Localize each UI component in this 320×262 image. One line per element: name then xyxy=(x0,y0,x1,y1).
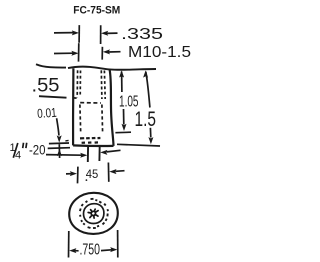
1/4-20 leader wire xyxy=(46,154,82,157)
svg-text:.750: .750 xyxy=(80,241,101,258)
svg-text:M10-1.5: M10-1.5 xyxy=(128,44,191,61)
thread bottom dashes row 2 xyxy=(82,141,98,144)
gap surface line upper xyxy=(49,142,69,145)
dimension .45 left leader wire xyxy=(66,173,71,175)
standoff body right edge xyxy=(110,70,114,146)
dimension 1.05 lower arrow segment xyxy=(123,109,125,125)
row A right arrowhead xyxy=(100,150,107,155)
svg-text:45: 45 xyxy=(86,167,99,181)
dimension .45 right arrowhead xyxy=(109,169,116,174)
.750 left arrow tail wire xyxy=(75,250,79,252)
top face reference line left segment xyxy=(36,64,66,67)
0.01 leader lower stem xyxy=(58,144,60,158)
dimension .335 left arrowhead xyxy=(72,30,79,35)
thread bottom dashes row 1 xyxy=(80,137,100,140)
thread hidden line right inner xyxy=(100,70,103,99)
svg-text:.55: .55 xyxy=(32,75,60,96)
dimension .335 left leader wire xyxy=(54,32,73,34)
counterbore hidden outline top xyxy=(80,102,101,104)
.750 right arrow tail wire xyxy=(101,249,112,252)
stray dot under 4 xyxy=(86,179,88,181)
dimension .335 right arrowhead xyxy=(101,31,108,36)
bottom face reference line extended right xyxy=(117,144,160,146)
dimension M10-1.5 right arrowhead xyxy=(103,49,110,54)
diameter .750 right extension line xyxy=(117,230,119,258)
svg-text:0.01: 0.01 xyxy=(37,105,57,121)
dimension .45 left extension tick xyxy=(77,167,79,184)
bottom view outer circle xyxy=(69,193,118,234)
gap surface line lower xyxy=(48,147,70,150)
knurl dash ring xyxy=(80,199,108,228)
dimension 1.5 lower arrow segment xyxy=(149,128,151,138)
star shaped thread hole xyxy=(91,211,95,215)
standoff body bottom edge xyxy=(73,144,113,147)
0.01 lower arrowhead up xyxy=(57,149,62,156)
standoff body left edge xyxy=(72,68,75,145)
dimension 1.05 upper arrow segment xyxy=(121,72,123,93)
1/4-20 leader arrowhead xyxy=(80,153,87,158)
dimension .45 right extension tick xyxy=(107,163,109,182)
dimension 1.5 upper arrow segment xyxy=(146,72,150,108)
dimension M10-1.5 right leader wire xyxy=(108,51,120,53)
thread hidden line left inner xyxy=(79,71,81,98)
thread hidden line right outer xyxy=(103,71,106,100)
dimension .335 right extension tick xyxy=(100,25,102,44)
counterbore depth witness line xyxy=(39,96,67,98)
dimension M10-1.5 left leader wire xyxy=(54,52,73,54)
counterbore hidden outline left xyxy=(79,105,82,134)
dimension .45 left arrowhead xyxy=(70,171,77,176)
dimension .335 right leader wire xyxy=(106,32,117,34)
0.01 leader wire xyxy=(57,118,59,135)
counterbore hidden outline right xyxy=(101,105,104,133)
diameter .750 left extension line xyxy=(68,231,70,258)
inch quote marks xyxy=(23,143,27,148)
row A right leader wire xyxy=(107,150,121,152)
.750 right arrowhead xyxy=(110,247,117,252)
dimension M10-1.5 right extension tick xyxy=(101,47,103,60)
dimension M10-1.5 left arrowhead xyxy=(71,51,78,56)
thread label fraction slash xyxy=(13,143,17,158)
inner circle of bottom view xyxy=(83,204,103,224)
top face line of body and reference line extended right xyxy=(68,67,156,70)
svg-text:-20: -20 xyxy=(29,142,46,158)
stray mark left of body xyxy=(65,139,68,142)
dimension .335 left extension tick xyxy=(78,25,80,43)
svg-text:.335: .335 xyxy=(121,26,163,43)
thread hidden line left outer xyxy=(76,70,78,97)
0.01 leader arrowhead down xyxy=(57,135,62,142)
extension tick row A right xyxy=(98,146,100,161)
svg-text:4: 4 xyxy=(15,149,21,161)
.750 left arrowhead xyxy=(69,248,76,253)
svg-text:FC-75-SM: FC-75-SM xyxy=(73,5,120,17)
witness line tip inside body xyxy=(74,97,77,99)
thread depth witness line xyxy=(115,131,131,134)
dimension .45 right leader wire xyxy=(116,170,125,173)
extension tick row A left xyxy=(87,145,89,162)
star spikes xyxy=(88,209,98,218)
svg-text:1.5: 1.5 xyxy=(135,108,157,131)
dimension M10-1.5 left extension tick xyxy=(78,43,80,61)
